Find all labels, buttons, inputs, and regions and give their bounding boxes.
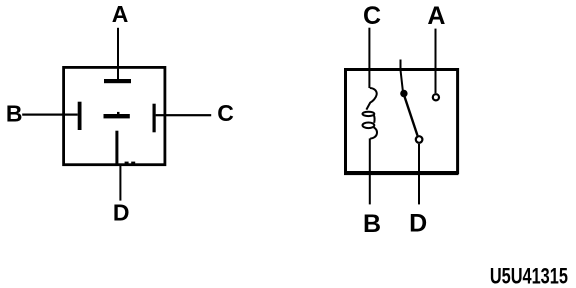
wire B lead (left)	[22, 114, 77, 116]
pin C blade	[153, 104, 156, 133]
contact A circle	[433, 94, 439, 100]
svg-text:D: D	[409, 210, 427, 238]
svg-text:A: A	[112, 1, 129, 27]
svg-text:C: C	[217, 100, 234, 126]
wire A lead (left)	[117, 28, 119, 80]
svg-text:C: C	[363, 2, 381, 30]
pin B blade	[78, 102, 82, 130]
svg-text:U5U41315: U5U41315	[490, 264, 568, 288]
pin D blade (center bar)	[104, 114, 130, 118]
NO contact circle (to D)	[416, 136, 423, 143]
svg-text:B: B	[6, 101, 23, 127]
pin A blade	[104, 79, 131, 83]
relay connector box (left)	[64, 67, 165, 164]
wire D lead (right)	[418, 144, 420, 205]
relay box (right schematic)	[346, 70, 458, 173]
bolder lower edge of right box	[344, 173, 459, 176]
wire A lead (right)	[435, 29, 437, 94]
wire C lead (right, into coil)	[368, 28, 370, 88]
coil L (relay winding)	[363, 88, 377, 139]
scan noise ticks on left box bottom edge	[125, 162, 129, 164]
pin D stem	[115, 131, 118, 165]
wire C lead (left)	[156, 114, 212, 116]
wire D lead (left)	[119, 166, 121, 201]
svg-text:D: D	[113, 199, 130, 225]
wire B lead (right, from coil to B)	[369, 138, 371, 204]
switch common stub wire	[401, 60, 403, 91]
switch armature	[405, 97, 418, 136]
svg-text:B: B	[363, 210, 381, 238]
svg-text:A: A	[427, 2, 445, 30]
switch common dot (pivot)	[400, 90, 407, 97]
